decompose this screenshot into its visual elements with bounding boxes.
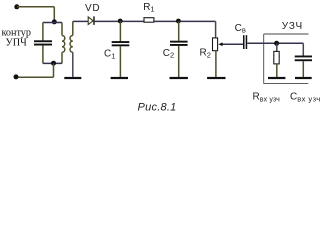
wire Cv to UZCH input bbox=[247, 42, 303, 44]
ground C2 bbox=[170, 77, 188, 79]
resistor Rvx UZCH bbox=[274, 43, 279, 77]
node C2 tap bbox=[176, 19, 181, 24]
terminal dot bottom-left bbox=[14, 74, 19, 79]
node junction transformer top bbox=[52, 19, 57, 24]
wire bottom-left horizontal bbox=[16, 76, 54, 78]
capacitor Svx UZCH bbox=[295, 43, 312, 77]
capacitor C2 bbox=[170, 21, 188, 77]
wire junction down bbox=[53, 63, 55, 77]
wire top feed vertical bbox=[53, 7, 55, 23]
wire R1 to R2 bbox=[154, 20, 216, 22]
capacitor Cv coupling bbox=[243, 35, 247, 49]
svg-text:VD: VD bbox=[85, 3, 100, 14]
terminal dot top-left bbox=[14, 4, 19, 9]
node UZCH input bbox=[274, 41, 279, 46]
transformer primary winding bbox=[62, 23, 65, 64]
node bottom junction bbox=[51, 61, 56, 66]
resistor R1 bbox=[144, 18, 154, 23]
wire diode to R1 bbox=[95, 20, 144, 22]
node C1 tap bbox=[118, 19, 123, 24]
diode VD bbox=[88, 16, 95, 25]
ground C1 bbox=[111, 77, 128, 79]
wire secondary top to diode bbox=[73, 20, 88, 22]
wiper arrow R2 bbox=[218, 42, 243, 46]
ground Svx bbox=[295, 77, 312, 79]
capacitor C1 bbox=[112, 21, 130, 77]
capacitor tank (контур УПЧ) bbox=[34, 23, 52, 64]
wire top feed horizontal bbox=[17, 6, 55, 8]
block UZCH dashed box bbox=[264, 34, 309, 84]
resistor R2 potentiometer body bbox=[213, 38, 218, 51]
wire down to R2 bbox=[215, 21, 217, 38]
wire cap to primary top bbox=[43, 22, 62, 24]
transformer secondary winding bbox=[70, 21, 73, 77]
wire R2 bottom bbox=[215, 51, 217, 77]
ground R2 bbox=[207, 77, 225, 79]
wire cap bottom to primary bottom bbox=[43, 62, 62, 64]
svg-text:УЗЧ: УЗЧ bbox=[282, 21, 303, 32]
ground transformer secondary bbox=[64, 77, 81, 79]
ground Rvx bbox=[268, 77, 285, 79]
svg-text:УПЧ: УПЧ bbox=[6, 38, 28, 49]
svg-text:Рис.8.1: Рис.8.1 bbox=[138, 102, 177, 114]
